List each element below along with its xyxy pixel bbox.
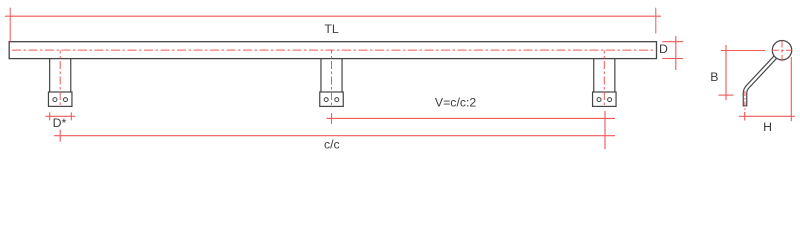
side view arm bbox=[745, 56, 776, 106]
TL dimension bbox=[5, 8, 661, 42]
V dimension bbox=[327, 113, 616, 123]
bracket right bbox=[593, 59, 617, 107]
svg-text:D*: D* bbox=[53, 116, 67, 130]
D dimension bbox=[662, 36, 683, 70]
bracket middle bbox=[320, 59, 344, 107]
label H bbox=[763, 120, 772, 134]
side view circle crosshair bbox=[772, 41, 793, 64]
svg-text:H: H bbox=[763, 120, 772, 134]
svg-text:c/c: c/c bbox=[324, 137, 340, 151]
label c/c bbox=[324, 137, 340, 151]
label TL bbox=[324, 22, 339, 36]
side view tube circle bbox=[772, 41, 791, 60]
H dimension bbox=[739, 57, 795, 121]
side view arm centerline bbox=[744, 91, 746, 113]
handrail tube bbox=[9, 42, 656, 59]
svg-text:B: B bbox=[710, 70, 718, 84]
bracket left bbox=[48, 59, 71, 107]
tube centerline bbox=[12, 49, 655, 51]
bracket right centerline bbox=[603, 51, 605, 107]
label D* bbox=[53, 116, 67, 130]
label V=c/c:2 bbox=[435, 96, 477, 110]
label D bbox=[659, 42, 668, 56]
svg-text:V=c/c:2: V=c/c:2 bbox=[435, 96, 477, 110]
D* dimension bbox=[46, 112, 76, 120]
bracket middle centerline bbox=[331, 51, 333, 107]
label B bbox=[710, 70, 718, 84]
bracket left centerline bbox=[59, 51, 61, 107]
svg-text:D: D bbox=[659, 42, 668, 56]
c/c dimension bbox=[54, 111, 615, 149]
B dimension bbox=[719, 45, 766, 100]
svg-text:TL: TL bbox=[324, 22, 339, 36]
